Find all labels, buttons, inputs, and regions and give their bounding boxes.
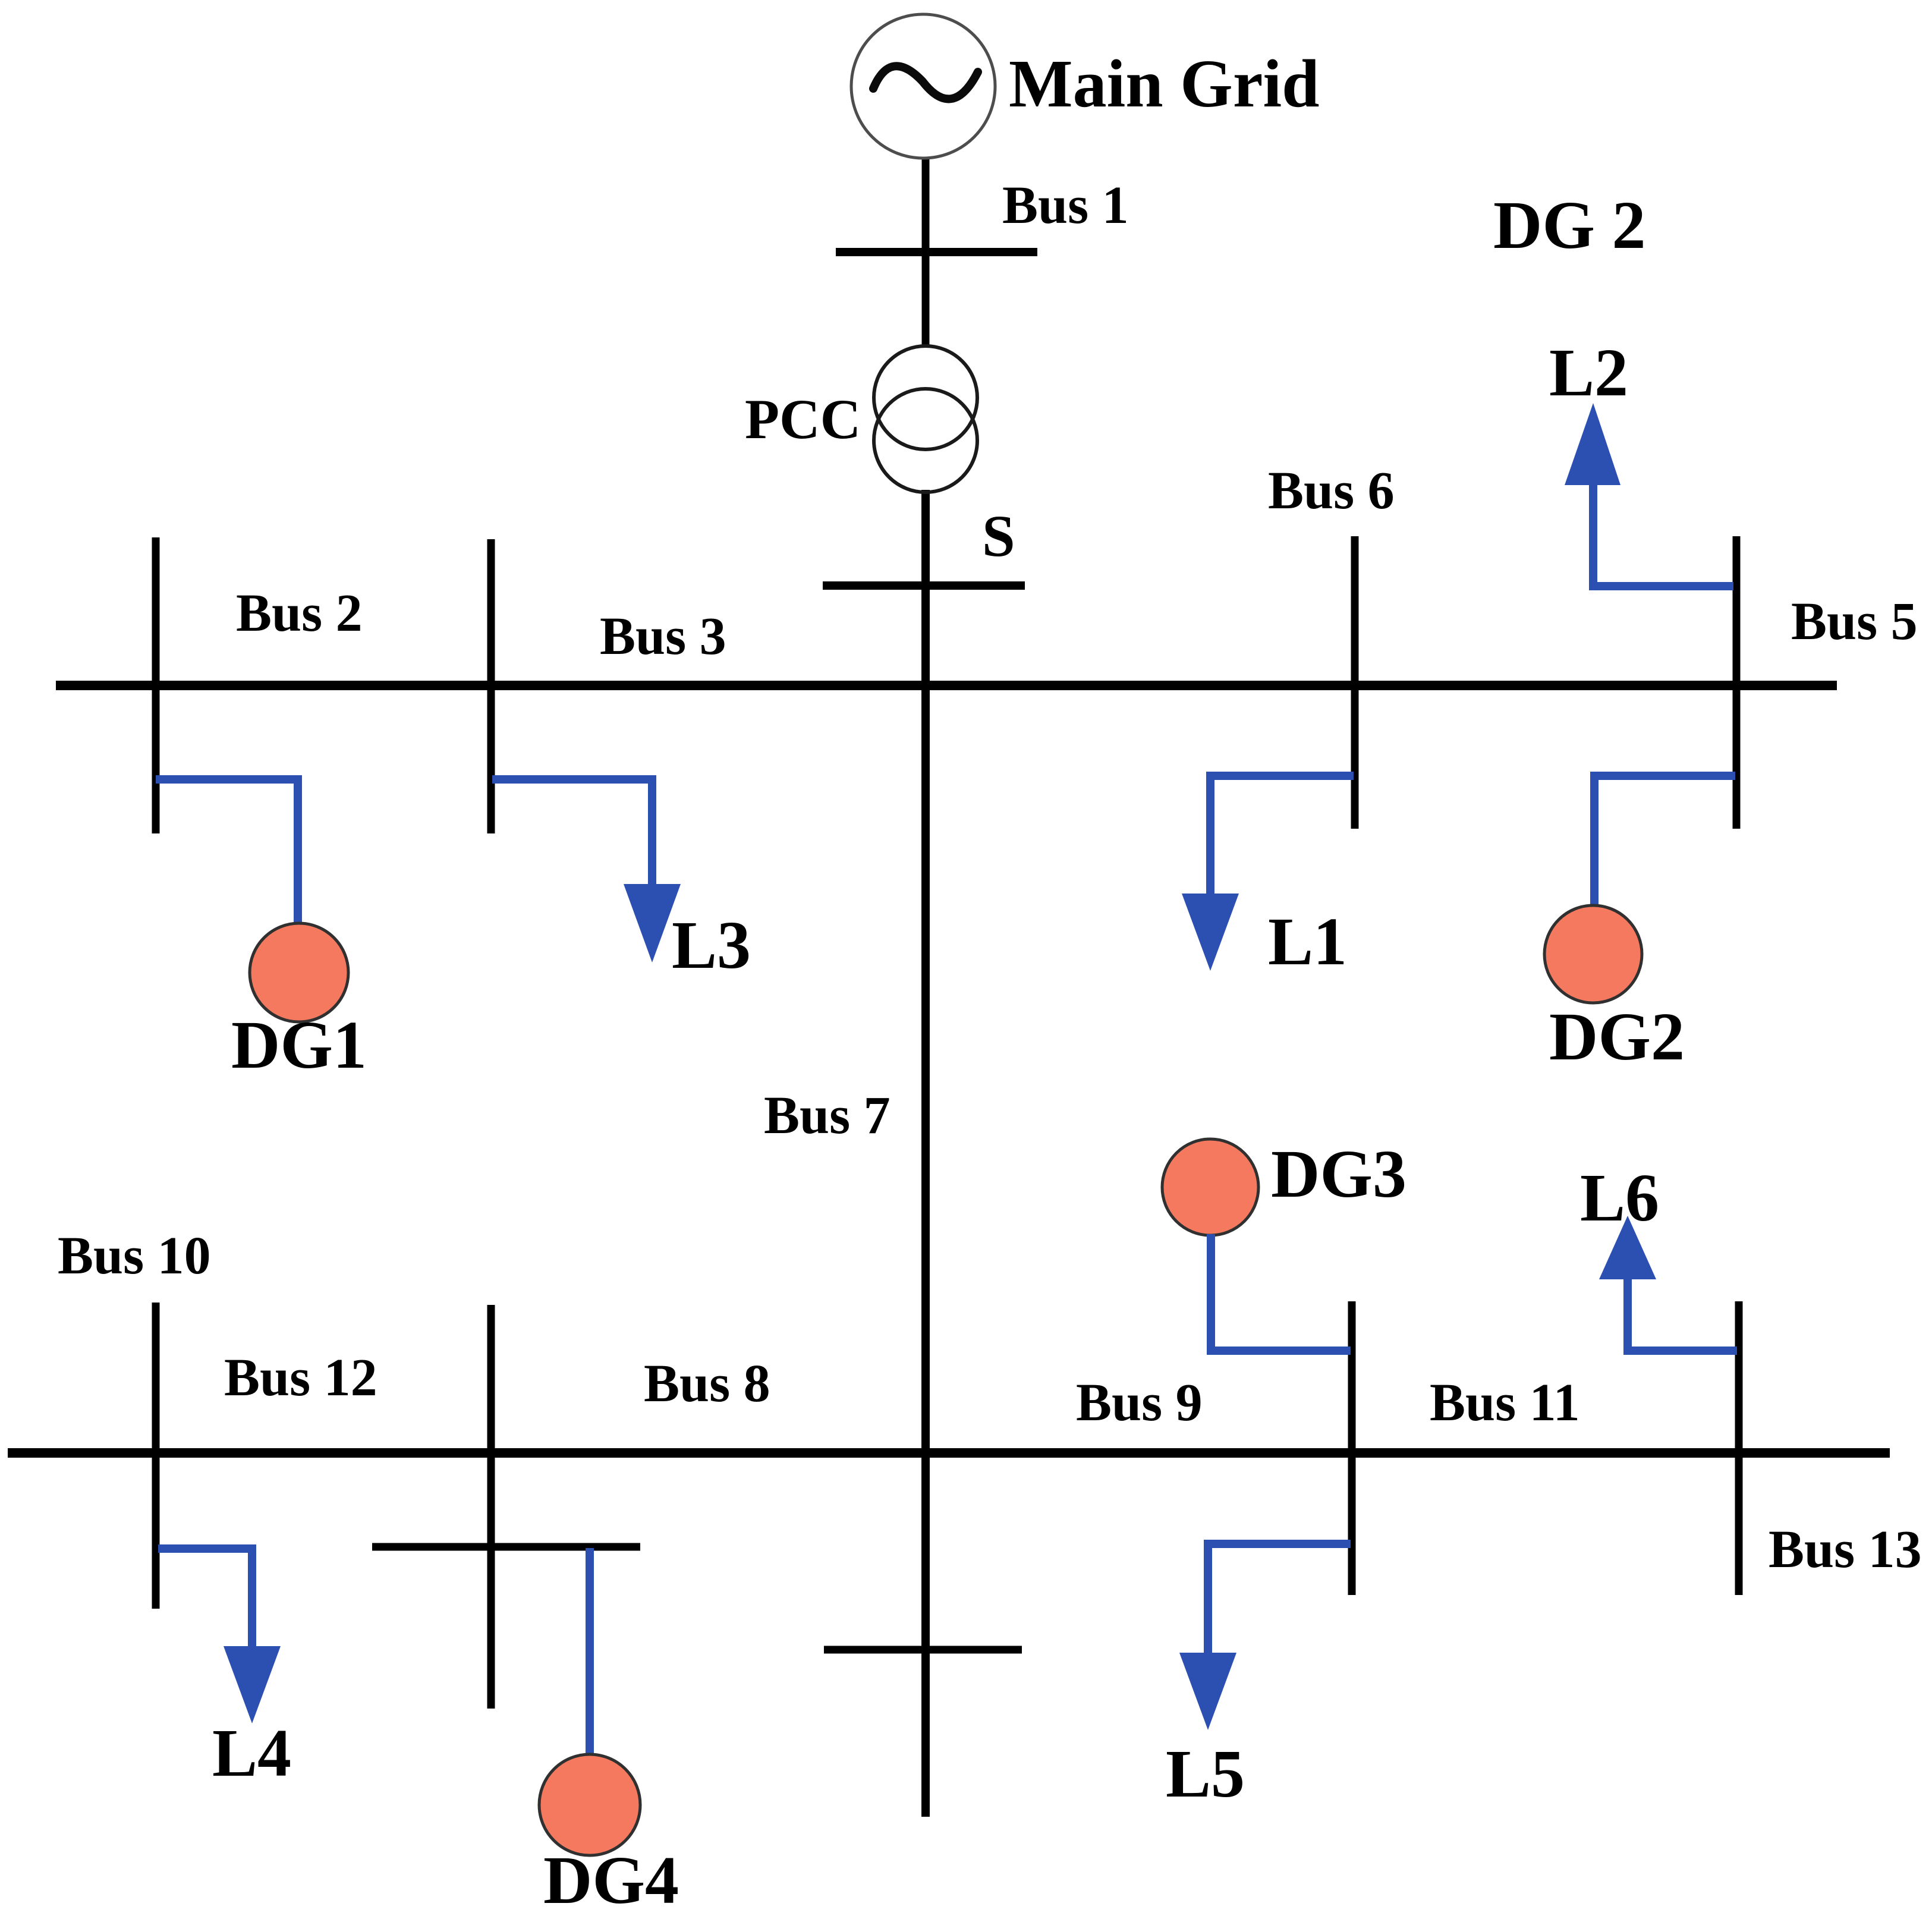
svg-text:L4: L4: [212, 1715, 291, 1791]
load L6 arrowhead: [1599, 1216, 1656, 1279]
transformer PCC circle lower: [874, 389, 977, 492]
bus 8 lower bar: [372, 1543, 640, 1551]
load L5 arrowhead: [1179, 1653, 1236, 1730]
generator DG2 circle: [1544, 905, 1642, 1003]
bottom feeder line: [8, 1448, 1890, 1458]
generator DG4 circle: [539, 1754, 640, 1855]
svg-text:Bus 1: Bus 1: [1002, 176, 1129, 235]
load L2 arrowhead: [1565, 403, 1621, 485]
svg-text:Bus 9: Bus 9: [1076, 1373, 1203, 1432]
svg-text:S: S: [982, 503, 1015, 569]
svg-text:DG4: DG4: [543, 1842, 679, 1918]
svg-text:L2: L2: [1549, 335, 1628, 410]
svg-text:DG3: DG3: [1271, 1136, 1406, 1212]
svg-text:Bus 11: Bus 11: [1430, 1373, 1580, 1432]
load L5 wire: [1208, 1544, 1351, 1654]
bus 2 bar: [152, 537, 160, 833]
svg-text:L3: L3: [672, 907, 751, 983]
svg-text:Bus 10: Bus 10: [58, 1226, 211, 1285]
bus 13 bar: [1735, 1301, 1743, 1595]
transformer PCC circle upper: [874, 346, 977, 449]
load L4 arrowhead: [224, 1646, 281, 1723]
svg-text:DG1: DG1: [231, 1007, 367, 1083]
svg-text:Bus 12: Bus 12: [224, 1348, 377, 1407]
svg-text:Bus 7: Bus 7: [764, 1086, 891, 1145]
load L3 wire: [492, 779, 652, 885]
bus 10 bar: [152, 1303, 160, 1609]
bus 5 bar: [1733, 536, 1741, 829]
bus 1 bar: [836, 248, 1037, 256]
main grid source circle: [851, 14, 995, 158]
svg-text:Bus 3: Bus 3: [600, 607, 726, 666]
generator DG1 circle: [250, 923, 348, 1022]
top feeder line: [56, 681, 1837, 690]
svg-text:L1: L1: [1268, 904, 1347, 979]
load L2 wire: [1593, 482, 1733, 586]
bus 3 bar: [487, 539, 495, 833]
wire DG2 to bus 5: [1594, 776, 1735, 905]
load L4 wire: [158, 1549, 252, 1647]
svg-text:Bus 13: Bus 13: [1769, 1520, 1922, 1579]
wire DG3 to bus 9: [1211, 1234, 1351, 1351]
svg-text:DG2: DG2: [1549, 999, 1685, 1074]
load L1 wire: [1210, 776, 1354, 895]
svg-text:Bus 5: Bus 5: [1791, 592, 1918, 651]
generator DG3 circle: [1162, 1139, 1258, 1235]
main grid sine wave: [873, 66, 978, 99]
svg-text:PCC: PCC: [745, 388, 861, 451]
load L1 arrowhead: [1182, 894, 1239, 971]
bus 12 bar: [487, 1305, 495, 1709]
load L6 wire: [1628, 1276, 1737, 1351]
svg-text:DG 2: DG 2: [1493, 187, 1646, 263]
switch S bar: [823, 581, 1025, 590]
wire DG4 to bus 8 bar: [586, 1548, 594, 1755]
bus 6 bar: [1351, 536, 1359, 829]
wire: main grid to transformer (through Bus 1): [922, 153, 930, 347]
load L3 arrowhead: [624, 884, 681, 962]
svg-text:L6: L6: [1580, 1160, 1659, 1235]
wire: transformer down trunk feeder Bus 7: [921, 490, 930, 1817]
bottom trunk crossbar: [824, 1646, 1022, 1654]
wire DG1 to bus 2: [156, 779, 298, 925]
bus 9 bar: [1348, 1301, 1356, 1595]
svg-text:L5: L5: [1166, 1736, 1245, 1811]
svg-text:Bus 2: Bus 2: [236, 584, 363, 643]
svg-text:Bus 6: Bus 6: [1268, 461, 1395, 520]
svg-text:Bus 8: Bus 8: [644, 1354, 770, 1413]
svg-text:Main Grid: Main Grid: [1009, 46, 1320, 121]
